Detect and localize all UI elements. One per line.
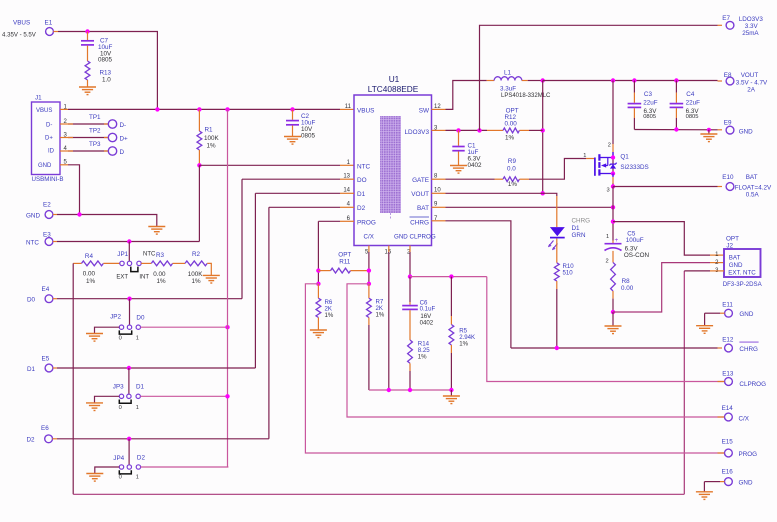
svg-text:R3: R3: [156, 252, 165, 259]
pin 2: [60, 119, 68, 125]
svg-text:2: 2: [608, 142, 611, 148]
wire ntc row: [199, 164, 354, 166]
svg-text:R2: R2: [192, 251, 201, 258]
svg-text:NTC: NTC: [357, 163, 371, 170]
pin number 6: [347, 216, 351, 222]
svg-text:USBMINI-B: USBMINI-B: [32, 176, 64, 183]
wire: [140, 395, 227, 397]
pin GND: [394, 234, 408, 241]
wire: [53, 215, 157, 227]
wire CHRG: [432, 221, 511, 348]
wire: [95, 327, 120, 333]
wire E13 branch: [487, 277, 725, 382]
svg-text:4.35V - 5.5V: 4.35V - 5.5V: [2, 32, 37, 39]
svg-text:D1: D1: [136, 384, 145, 391]
jumper JP4: [113, 455, 145, 481]
wire VOUT pin row: [432, 193, 557, 196]
svg-text:+: +: [615, 237, 619, 244]
svg-text:ID: ID: [48, 149, 55, 155]
svg-text:1: 1: [136, 475, 139, 481]
svg-text:1: 1: [583, 153, 586, 159]
svg-text:D1: D1: [357, 191, 366, 198]
jumper JP1: [116, 251, 149, 280]
junction: [225, 394, 229, 398]
pin number 14: [343, 188, 350, 194]
svg-text:E3: E3: [43, 232, 51, 239]
svg-text:Si2333DS: Si2333DS: [620, 164, 648, 171]
wire ground rail: [369, 389, 452, 391]
junction: [316, 268, 320, 272]
svg-text:E8: E8: [724, 72, 732, 79]
capacitor C3: [628, 91, 658, 120]
test point TP1: [89, 114, 126, 129]
terminal E13: [722, 371, 766, 389]
svg-text:D-: D-: [46, 122, 52, 128]
wire: [53, 193, 256, 368]
resistor R5: [449, 277, 475, 390]
svg-text:E10: E10: [722, 174, 734, 181]
svg-text:GND: GND: [739, 480, 753, 487]
svg-text:1%: 1%: [376, 311, 385, 318]
IC U1 LTC4088EDE: [354, 74, 432, 246]
wire: [633, 108, 635, 129]
pin VBUS: [357, 107, 374, 114]
junction: [611, 310, 615, 314]
svg-text:E15: E15: [722, 439, 734, 446]
svg-text:1%: 1%: [157, 278, 167, 285]
svg-text:E13: E13: [722, 371, 734, 378]
wire: [556, 196, 558, 227]
svg-text:1%: 1%: [418, 354, 427, 361]
junction: [541, 191, 545, 195]
wire: [292, 109, 294, 119]
pin PROG: [357, 219, 376, 226]
wire: [73, 262, 81, 264]
terminal E9: [724, 119, 753, 135]
svg-text:1%: 1%: [508, 181, 518, 188]
junction: [611, 171, 615, 175]
svg-text:GATE: GATE: [412, 177, 429, 184]
svg-text:VBUS: VBUS: [357, 107, 374, 114]
ground: [203, 275, 220, 283]
wire E14 branch: [347, 284, 724, 417]
wire J2 pin3: [684, 270, 724, 272]
junction: [555, 346, 559, 350]
svg-text:GND: GND: [729, 262, 743, 269]
resistor R13: [85, 61, 111, 84]
pin 3: [60, 132, 68, 138]
wire: [675, 81, 677, 103]
svg-text:0.1uF: 0.1uF: [420, 306, 436, 313]
pin number 9: [434, 202, 438, 208]
junction: [611, 184, 615, 188]
svg-text:GND: GND: [739, 128, 753, 135]
jumper JP2: [110, 314, 145, 342]
terminal E12: [722, 337, 758, 354]
svg-text:22uF: 22uF: [643, 100, 658, 107]
svg-text:BAT: BAT: [746, 174, 758, 181]
svg-text:GND: GND: [26, 212, 40, 219]
junction: [225, 107, 229, 111]
svg-text:D: D: [120, 149, 125, 156]
junction: [225, 325, 229, 329]
svg-text:0805: 0805: [98, 57, 113, 64]
svg-text:0: 0: [119, 475, 122, 481]
junction: [611, 155, 615, 159]
svg-text:CLPROG: CLPROG: [739, 381, 766, 388]
transistor Q1 Si2333DS: [583, 142, 648, 193]
connector J2: [715, 236, 762, 289]
svg-text:0: 0: [119, 335, 122, 341]
svg-text:R4: R4: [85, 253, 94, 260]
svg-text:D2: D2: [27, 437, 36, 444]
resistor R8: [611, 262, 634, 312]
svg-text:JP2: JP2: [110, 314, 121, 321]
svg-text:R11: R11: [339, 258, 351, 265]
pin GATE: [412, 177, 429, 184]
svg-text:E11: E11: [722, 302, 733, 309]
svg-text:1%: 1%: [207, 143, 217, 150]
junction: [408, 388, 412, 392]
wire J2 pin2 branch: [613, 263, 724, 312]
test point TP2: [89, 128, 128, 143]
terminal E4: [27, 286, 53, 304]
resistor R11: [318, 251, 369, 273]
svg-text:D1: D1: [27, 366, 36, 373]
svg-text:BAT: BAT: [729, 254, 741, 261]
svg-text:3: 3: [607, 188, 610, 194]
svg-text:JP1: JP1: [117, 251, 128, 258]
wire: [227, 109, 229, 466]
svg-text:SW: SW: [419, 107, 430, 114]
wire: [87, 46, 89, 61]
junction: [611, 78, 615, 82]
svg-text:E6: E6: [41, 425, 49, 432]
svg-text:0.00: 0.00: [83, 271, 96, 278]
ground: [450, 166, 467, 174]
svg-text:VOUT: VOUT: [741, 72, 759, 79]
resistor R12: [487, 108, 543, 142]
svg-text:LDO3V3: LDO3V3: [404, 129, 429, 136]
svg-text:2A: 2A: [747, 87, 756, 94]
wire: [129, 299, 131, 325]
wire: [72, 263, 74, 494]
ground: [605, 326, 622, 334]
svg-text:11: 11: [345, 104, 352, 110]
ground: [86, 334, 103, 342]
pin NTC: [357, 163, 371, 170]
svg-text:JP3: JP3: [113, 383, 124, 390]
wire: [87, 80, 89, 87]
wire GND column: [388, 246, 390, 391]
wire: [612, 251, 614, 263]
svg-text:D+: D+: [45, 136, 53, 142]
pin number 2: [407, 250, 411, 256]
svg-text:BAT: BAT: [417, 205, 429, 212]
wire CLPROG row: [410, 276, 487, 278]
pin SW: [419, 107, 430, 114]
svg-text:LTC4088EDE: LTC4088EDE: [368, 84, 419, 94]
wire: [141, 326, 228, 328]
svg-text:D2: D2: [137, 455, 146, 462]
wire: [53, 32, 157, 110]
svg-text:C/X: C/X: [739, 416, 750, 423]
pin number 13: [343, 174, 350, 180]
wire DO row: [242, 178, 354, 180]
svg-text:0.00: 0.00: [505, 121, 518, 128]
svg-text:Q1: Q1: [620, 154, 629, 161]
terminal E10: [722, 174, 772, 198]
pin D1: [357, 191, 366, 198]
jumper JP3: [113, 383, 145, 411]
wire: [141, 262, 151, 264]
junction: [127, 437, 131, 441]
ground: [86, 474, 103, 482]
svg-text:LDO3V3: LDO3V3: [739, 16, 764, 23]
capacitor C2: [286, 113, 316, 140]
svg-text:VOUT: VOUT: [411, 191, 429, 198]
wire: [718, 416, 725, 418]
ground: [696, 492, 713, 500]
junction: [367, 282, 371, 286]
label NTC: [143, 252, 156, 258]
svg-text:1%: 1%: [459, 341, 468, 348]
junction: [408, 274, 412, 278]
wire: [87, 32, 89, 41]
svg-text:1%: 1%: [192, 278, 202, 285]
svg-text:1%: 1%: [325, 312, 334, 319]
wire: [409, 277, 411, 302]
wire: [128, 439, 130, 465]
svg-text:100K: 100K: [204, 135, 220, 142]
svg-text:CLPROG: CLPROG: [410, 234, 436, 241]
resistor R9: [495, 158, 530, 188]
wire: [529, 159, 595, 180]
wire: [173, 262, 185, 264]
svg-text:U1: U1: [389, 74, 400, 84]
wire: [141, 466, 229, 468]
terminal E14: [722, 405, 750, 423]
pin number 12: [434, 104, 441, 110]
wire: [612, 312, 614, 326]
svg-text:TP1: TP1: [89, 114, 101, 121]
terminal E8: [724, 72, 768, 93]
wire D2 row: [269, 206, 354, 208]
pin LDO3V3: [404, 129, 429, 136]
junction: [541, 78, 545, 82]
svg-text:1.0: 1.0: [102, 77, 111, 84]
ground: [443, 396, 460, 404]
wire: [68, 108, 354, 110]
svg-text:D-: D-: [120, 122, 127, 129]
resistor R10: [554, 263, 574, 348]
wire Q1 drain: [612, 81, 614, 158]
pin C/X: [364, 234, 374, 241]
terminal E5: [27, 355, 53, 373]
wire J2 pin1 branch: [613, 222, 724, 256]
junction: [197, 107, 201, 111]
junction: [367, 268, 371, 272]
svg-text:OS-CON: OS-CON: [624, 252, 650, 259]
svg-text:EXT: EXT: [116, 274, 128, 280]
wire GATE: [432, 178, 495, 180]
capacitor C7: [81, 38, 113, 64]
pin D2: [357, 205, 366, 212]
junction: [77, 212, 81, 216]
terminal E11: [722, 302, 754, 319]
svg-text:OPT: OPT: [726, 236, 739, 243]
pin number 5: [365, 250, 369, 256]
wire VOUT rail: [543, 80, 722, 83]
svg-text:E2: E2: [43, 202, 51, 209]
svg-text:E14: E14: [722, 405, 734, 412]
pin number 8: [434, 174, 438, 180]
wire: [705, 313, 725, 325]
ground: [284, 137, 301, 145]
junction: [290, 107, 294, 111]
svg-text:3.3uF: 3.3uF: [500, 85, 516, 92]
svg-text:CHRG: CHRG: [410, 219, 429, 226]
capacitor C5: [605, 230, 650, 264]
svg-text:L1: L1: [504, 70, 512, 77]
svg-text:1: 1: [136, 405, 139, 411]
resistor R7: [367, 284, 385, 390]
resistor R2: [185, 251, 207, 285]
wire: [675, 108, 677, 129]
wire: [718, 452, 725, 454]
wire: [683, 271, 685, 494]
svg-text:R13: R13: [100, 70, 112, 77]
test point TP3: [89, 141, 125, 156]
svg-text:DO: DO: [357, 177, 367, 184]
wire: [450, 390, 452, 396]
wire: [128, 368, 130, 394]
junction: [674, 127, 678, 131]
wire BAT pin row: [432, 206, 614, 208]
svg-text:25mA: 25mA: [742, 30, 759, 37]
junction: [127, 366, 131, 370]
inductor L1: [487, 70, 551, 99]
svg-text:0805: 0805: [643, 114, 656, 120]
wire: [528, 80, 543, 82]
svg-text:VBUS: VBUS: [13, 20, 30, 27]
resistor R4: [82, 253, 104, 285]
svg-text:PROG: PROG: [739, 451, 758, 458]
pin number 1: [347, 160, 351, 166]
wire E7 branch: [480, 25, 723, 130]
svg-text:0.00: 0.00: [153, 271, 166, 278]
junction: [611, 205, 615, 209]
svg-text:TP2: TP2: [89, 128, 101, 135]
capacitor C4: [670, 91, 701, 120]
wire LDO3V3: [432, 129, 488, 131]
svg-text:JP4: JP4: [113, 455, 124, 462]
svg-text:E9: E9: [724, 119, 732, 126]
wire E10 row: [613, 186, 722, 188]
svg-text:0402: 0402: [468, 162, 483, 169]
svg-text:C3: C3: [644, 91, 653, 98]
junction: [456, 128, 460, 132]
wire C3C4 gnd rail: [634, 129, 722, 131]
junction: [316, 282, 320, 286]
svg-text:1%: 1%: [86, 278, 96, 285]
svg-text:100K: 100K: [188, 271, 204, 278]
pin number 4: [347, 202, 351, 208]
svg-text:0: 0: [119, 405, 122, 411]
wire: [68, 123, 108, 125]
pin CLPROG: [410, 234, 436, 241]
svg-text:CHRG: CHRG: [572, 218, 591, 225]
junction: [197, 163, 201, 167]
svg-text:GND: GND: [394, 234, 408, 241]
terminal E1: [2, 20, 53, 39]
svg-text:510: 510: [563, 270, 574, 277]
svg-text:R1: R1: [205, 126, 214, 133]
pin number 11: [345, 104, 352, 110]
ground: [79, 87, 96, 95]
ground: [148, 227, 165, 235]
capacitor C1: [452, 143, 482, 170]
svg-text:R9: R9: [508, 158, 517, 165]
wire: [704, 482, 724, 492]
svg-text:0402: 0402: [420, 320, 434, 327]
svg-text:E12: E12: [722, 337, 734, 344]
svg-text:EXT. NTC: EXT. NTC: [728, 270, 756, 277]
terminal E16: [722, 469, 753, 487]
wire PROG row: [318, 221, 354, 283]
terminal E3: [26, 232, 53, 247]
svg-text:J2: J2: [726, 243, 733, 250]
svg-text:100uF: 100uF: [626, 237, 644, 244]
svg-text:D2: D2: [357, 205, 366, 212]
svg-text:22uF: 22uF: [686, 100, 701, 107]
terminal E2: [26, 202, 53, 220]
wire: [633, 81, 635, 103]
pin number 15: [385, 250, 392, 256]
svg-text:CHRG: CHRG: [739, 346, 758, 353]
wire: [53, 179, 242, 299]
resistor R3: [151, 252, 172, 285]
capacitor C6: [402, 299, 435, 340]
svg-text:0805: 0805: [686, 114, 699, 120]
ground: [696, 326, 713, 334]
wire C/X column: [368, 246, 370, 284]
pin 5: [60, 160, 68, 166]
ground: [310, 330, 327, 338]
terminal E7: [722, 15, 763, 37]
junction: [155, 107, 159, 111]
LED D1: [548, 218, 590, 251]
junction: [387, 388, 391, 392]
connector J1: [32, 95, 64, 183]
svg-text:0.00: 0.00: [621, 285, 634, 292]
resistor R6: [316, 284, 334, 330]
wire: [556, 239, 558, 263]
terminal E6: [27, 425, 53, 444]
pin 4: [60, 146, 68, 152]
wire: [458, 130, 460, 145]
wire E12 row: [511, 347, 722, 349]
junction: [127, 297, 131, 301]
svg-text:1: 1: [606, 234, 609, 240]
svg-text:0.0: 0.0: [507, 166, 516, 173]
svg-text:C/X: C/X: [364, 234, 374, 241]
svg-text:FLOAT=4.2V: FLOAT=4.2V: [735, 184, 772, 191]
svg-text:J1: J1: [35, 95, 42, 102]
wire Q1 source: [612, 174, 614, 187]
junction: [449, 388, 453, 392]
wire: [95, 467, 120, 473]
